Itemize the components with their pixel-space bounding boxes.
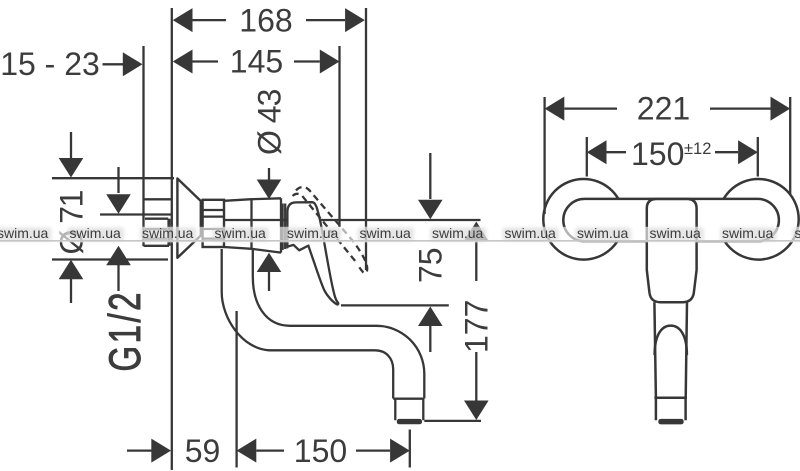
dimension 177 top arrow tail [475, 241, 477, 281]
svg-text:177: 177 [459, 300, 495, 353]
dimension 221 right arrow [771, 97, 791, 121]
dimension 145 left arrow [173, 50, 193, 74]
handle end aerator bar [658, 419, 683, 425]
dimension 150pm line left [607, 151, 627, 153]
spout outlet joint [393, 398, 424, 400]
outlet bottom reference line (177 bottom) [424, 420, 481, 422]
dimension 59 leader [127, 449, 153, 451]
svg-text:swim.ua: swim.ua [795, 225, 800, 241]
svg-text:swim.ua: swim.ua [70, 225, 122, 241]
lever tip reference line (75 bottom) [341, 304, 449, 306]
svg-text:swim.ua: swim.ua [360, 225, 412, 241]
handle end cap [656, 398, 686, 421]
dimension 145 line [193, 60, 320, 62]
dimension 150pm left arrow [587, 140, 607, 164]
svg-text:G1/2: G1/2 [101, 290, 150, 372]
svg-text:Ø 43: Ø 43 [252, 89, 288, 155]
dimension 75 bottom arrow [418, 307, 443, 327]
dimension 168 right arrow [345, 8, 365, 32]
svg-text:150: 150 [631, 136, 684, 172]
dimension 145 right arrow [320, 50, 340, 74]
dimension 150pm right arrow [738, 140, 758, 164]
grip sides [654, 302, 687, 398]
wall surface line B [171, 8, 173, 470]
cartridge housing [252, 198, 282, 252]
body section [224, 199, 252, 249]
dimension 221 left arrow [545, 97, 565, 121]
centerline axis of faucet body [211, 219, 481, 221]
handle body front [647, 199, 697, 302]
wall nut [203, 200, 224, 247]
svg-text:150: 150 [294, 433, 347, 469]
svg-text:swim.ua: swim.ua [505, 225, 557, 241]
right escutcheon circle [718, 179, 799, 260]
svg-text:59: 59 [185, 433, 221, 469]
extension line C (145 right, to axis) [338, 46, 340, 227]
150pm left extension line [586, 137, 588, 177]
dimension 150 right arrow [390, 439, 410, 463]
svg-text:221: 221 [637, 91, 690, 127]
nut groove lines [203, 210, 224, 239]
svg-text:Ø 71: Ø 71 [53, 190, 89, 254]
svg-text:swim.ua: swim.ua [577, 225, 629, 241]
svg-text:swim.ua: swim.ua [142, 225, 194, 241]
dia 71 top arrow [59, 158, 84, 178]
dimension 75 top arrow tail [429, 153, 431, 199]
handle lever solid [287, 202, 338, 304]
dimension 150pm line right [715, 151, 738, 153]
handle base plate [283, 204, 286, 251]
221 left extension line [543, 97, 545, 214]
dia 71 bottom tick [52, 258, 168, 260]
svg-text:75: 75 [413, 247, 449, 283]
watermark overlay band [0, 227, 800, 243]
dashed lever position lower [293, 194, 356, 262]
dia 43 top arrow [257, 180, 282, 200]
grip joint line [654, 396, 687, 399]
dimension 15-23 leader line [103, 63, 124, 65]
svg-text:swim.ua: swim.ua [287, 225, 339, 241]
dimension 150 line left [256, 449, 284, 451]
supply pipe end cap [167, 219, 170, 246]
svg-text:swim.ua: swim.ua [722, 225, 774, 241]
extension line at spout drop center [235, 311, 237, 468]
G1/2 top arrow tail [117, 167, 119, 193]
spout outlet piece [395, 399, 423, 421]
watermark texts [0, 225, 800, 241]
spout aerator cap [397, 419, 422, 424]
dia 43 top arrow tail [268, 168, 270, 181]
dimension 177 top arrow [464, 222, 489, 242]
G1/2 bottom arrow tail [117, 265, 119, 291]
mixer body bar [563, 199, 779, 241]
dimension 177 line [475, 352, 477, 401]
extension line D (168 right, to dashed lever tip) [365, 8, 367, 270]
supply pipe nipple [144, 219, 170, 246]
150pm right extension line [757, 137, 759, 177]
svg-text:swim.ua: swim.ua [432, 225, 484, 241]
dimension 59 arrow [151, 439, 171, 463]
G1/2 pointer line / fitting bottom [100, 213, 173, 215]
dimension 168 left arrow [173, 8, 193, 32]
spout inner contour [253, 249, 424, 399]
dia 71 bottom arrow tail [70, 279, 72, 303]
left escutcheon circle [543, 179, 624, 260]
dimension 150 line right [356, 449, 390, 451]
dimension 75 bottom arrow tail [429, 326, 431, 352]
dimension 150 left arrow [237, 439, 257, 463]
dimension 221 line [564, 107, 770, 109]
dimension 168 line [193, 19, 346, 21]
concealed fitting top [144, 198, 172, 200]
svg-text:15 - 23: 15 - 23 [0, 46, 100, 82]
escutcheon cone [177, 179, 200, 258]
dia 43 bottom arrow [257, 253, 282, 272]
dia 71 top arrow tail [70, 132, 72, 159]
G1/2 bottom arrow [106, 246, 131, 266]
extension line at outlet center [409, 430, 411, 468]
grip arch [655, 326, 687, 355]
svg-text:145: 145 [230, 44, 283, 80]
dia 71 top tick [52, 177, 174, 179]
wall reference line A (15-23 inner) [142, 46, 144, 246]
dashed lever position upper [296, 187, 367, 273]
dimension 177 bottom arrow [464, 401, 489, 421]
spout outer contour [222, 249, 394, 399]
svg-text:±12: ±12 [684, 140, 711, 158]
dimension 15-23 arrow [123, 52, 143, 76]
svg-text:swim.ua: swim.ua [0, 225, 49, 241]
svg-text:swim.ua: swim.ua [650, 225, 702, 241]
dia 71 bottom arrow [59, 260, 84, 280]
221 right extension line [789, 97, 791, 195]
svg-text:168: 168 [239, 3, 292, 39]
svg-text:swim.ua: swim.ua [215, 225, 267, 241]
G1/2 top arrow [106, 194, 131, 214]
dimension 75 top arrow [418, 200, 443, 220]
watermark halo boxes [0, 227, 800, 241]
watermark underline [0, 240, 800, 242]
dia 43 bottom arrow tail [268, 272, 270, 291]
